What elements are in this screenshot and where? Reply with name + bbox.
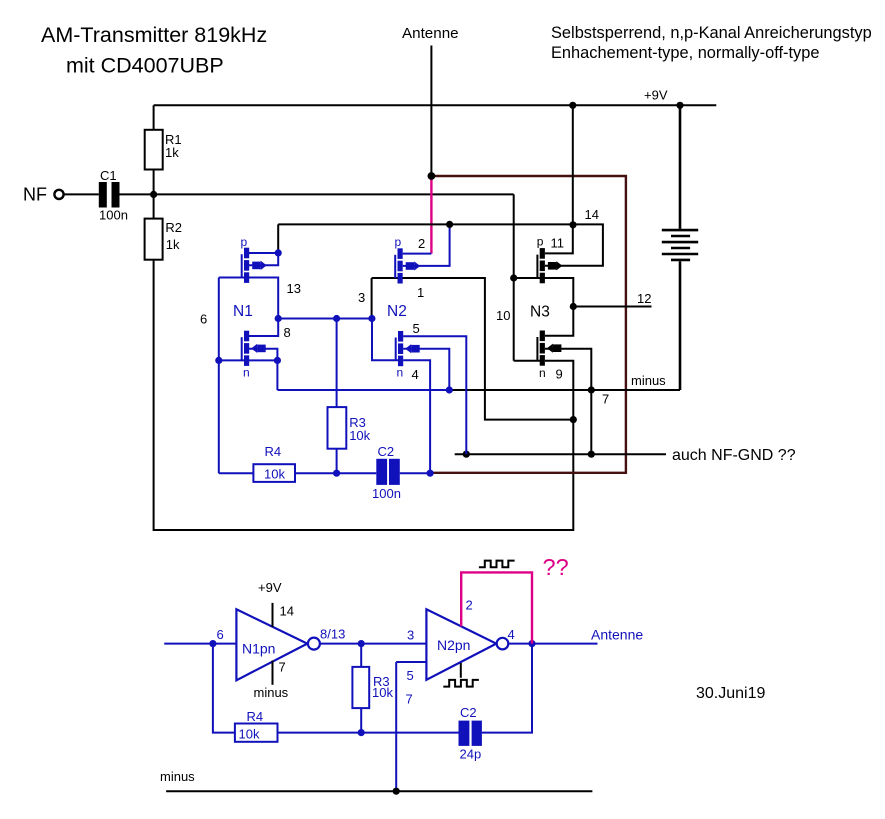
svg-text:8: 8 — [284, 325, 291, 340]
svg-text:N1pn: N1pn — [242, 641, 275, 657]
transistor N1 p-channel — [242, 248, 267, 283]
svg-text:n: n — [539, 366, 546, 380]
wire R4 to C2 lower — [278, 732, 459, 734]
svg-text:n: n — [243, 366, 250, 380]
node 14 junction — [569, 221, 576, 228]
svg-text:13: 13 — [287, 281, 301, 296]
svg-text:+9V: +9V — [258, 580, 282, 595]
node junction — [308, 638, 320, 650]
wire pin14 loop to N3 bulk — [545, 224, 603, 265]
wire N3 bulk to minus and NF-GND — [545, 349, 591, 454]
wire ground return U: R2 bottom to pin 9 — [154, 260, 574, 530]
svg-text:14: 14 — [280, 604, 294, 619]
svg-text:1k: 1k — [166, 237, 180, 252]
svg-text:8/13: 8/13 — [320, 627, 345, 642]
svg-text:minus: minus — [160, 769, 195, 784]
node antenna/maroon/magenta junction — [428, 172, 436, 180]
node C2 / maroon junction — [427, 470, 434, 477]
component body — [472, 721, 482, 746]
wire pin13/pin2 top rail — [278, 224, 573, 253]
svg-text:24p: 24p — [460, 747, 482, 762]
node 3 junction — [368, 315, 375, 322]
wire — [443, 680, 479, 687]
node 6 rail / n gate junction — [215, 357, 222, 364]
capacitor C2 lower — [459, 721, 470, 746]
node junction — [497, 638, 509, 650]
node R3 top junction — [333, 315, 340, 322]
wire N1 n gate feed — [219, 359, 245, 361]
node bulk/minus junction — [588, 386, 595, 393]
wire N1 n bulk arm — [249, 349, 278, 361]
resistor R1 — [145, 130, 163, 170]
wire minus line — [449, 389, 680, 391]
wire N2 n bulk down to minus — [403, 349, 449, 390]
svg-text:minus: minus — [631, 373, 666, 388]
terminal NF input — [54, 190, 63, 199]
wire +9V to node14 to pin11 arm — [545, 105, 573, 253]
wire N1 p bulk arm — [249, 253, 279, 265]
inverter N1pn — [236, 609, 307, 680]
wire lower R3 top stem — [360, 644, 362, 667]
wire pin5 stub lower — [396, 661, 426, 663]
node lower input junction — [209, 640, 216, 647]
transistor N3 n-channel — [537, 331, 561, 366]
wire N1 p source down to node 8/13 — [249, 278, 279, 319]
wire lower R4 branch — [213, 644, 235, 733]
node NF/R1/R2 junction — [150, 191, 157, 198]
node 10 gate junction — [510, 274, 517, 281]
wire node6 to R4 — [219, 472, 254, 474]
wire lower output line — [508, 643, 597, 645]
wire R1 top stem — [153, 105, 155, 130]
resistor R2 — [145, 219, 163, 260]
wire N2 p bulk arm up — [403, 224, 450, 266]
transistor N3 p-channel — [537, 248, 562, 283]
wire R2 top stem — [153, 194, 155, 218]
wire N1 p gate feed — [219, 277, 245, 279]
node R3 bottom junction — [333, 470, 340, 477]
wire N1 p drain arm (13) — [249, 252, 279, 254]
wire node 3 to N2 n gate — [372, 319, 399, 361]
resistor R3 upper — [328, 407, 347, 449]
svg-text:NF: NF — [23, 185, 47, 205]
wire lower R3 bottom stem — [360, 708, 362, 733]
svg-text:2: 2 — [466, 598, 473, 613]
svg-text:p: p — [395, 235, 402, 249]
svg-text:10k: 10k — [372, 685, 393, 700]
svg-text:C2: C2 — [460, 705, 477, 720]
wire N3 n gate feed — [514, 360, 541, 362]
wire maroon antenna-to-C2 loop — [431, 176, 626, 473]
svg-text:n: n — [397, 366, 404, 380]
svg-text:Antenne: Antenne — [402, 25, 459, 42]
svg-text:??: ?? — [543, 554, 569, 580]
capacitor C1 — [99, 182, 107, 208]
svg-text:6: 6 — [200, 312, 207, 327]
wire C2 up to output — [482, 644, 532, 733]
wire N3 p-source to node 12 to n-drain — [514, 278, 574, 336]
svg-text:10k: 10k — [264, 467, 285, 482]
node lower R3 bottom junction — [358, 729, 365, 736]
svg-text:100n: 100n — [99, 208, 128, 223]
wire N2 n drain (5) down to NF-GND — [403, 336, 466, 454]
node pin5/minus junction — [393, 788, 400, 795]
svg-text:R4: R4 — [265, 444, 282, 459]
transistor N1 n-channel — [242, 331, 266, 366]
wire pin5 to minus vertical — [395, 662, 397, 791]
wire node 4 line — [277, 389, 449, 391]
wire NF to C1 — [64, 193, 99, 195]
battery B1 — [662, 105, 698, 390]
svg-text:p: p — [537, 235, 544, 249]
wire lower main line mid — [320, 643, 427, 645]
svg-text:Selbstsperrend, n,p-Kanal Anre: Selbstsperrend, n,p-Kanal Anreicherungst… — [551, 24, 872, 42]
svg-text:100n: 100n — [372, 486, 401, 501]
svg-text:4: 4 — [412, 367, 419, 382]
svg-text:1k: 1k — [165, 145, 179, 160]
wire pin14 stub lower — [272, 603, 274, 627]
capacitor C2 upper — [376, 459, 387, 485]
svg-text:Antenne: Antenne — [591, 627, 643, 643]
wire magenta pin2 loop lower — [461, 572, 532, 643]
wire N1 n source arm — [249, 359, 278, 361]
svg-text:p: p — [241, 235, 248, 249]
wire N1 n drain arm (8) — [249, 319, 279, 337]
wire R3 bottom stem upper — [336, 449, 338, 474]
wire R1 bottom stem — [153, 170, 155, 195]
svg-text:5: 5 — [407, 668, 414, 683]
wire NF line to node 10 — [120, 193, 514, 195]
node 12 junction — [570, 303, 577, 310]
svg-text:6: 6 — [217, 627, 224, 642]
wire N2 p drain arm (2) — [403, 253, 432, 255]
wire +9V rail — [154, 104, 717, 106]
wire antenna vertical — [430, 46, 432, 177]
svg-text:30.Juni19: 30.Juni19 — [696, 685, 765, 702]
wire node 8/13 to node 3 — [278, 318, 372, 320]
svg-text:7: 7 — [406, 692, 413, 707]
node 8/13 junction — [275, 315, 282, 322]
svg-text:auch NF-GND ??: auch NF-GND ?? — [672, 447, 796, 464]
component body — [389, 459, 400, 485]
svg-text:AM-Transmitter 819kHz: AM-Transmitter 819kHz — [41, 23, 267, 47]
svg-text:12: 12 — [637, 291, 651, 306]
svg-text:R4: R4 — [247, 709, 264, 724]
wire auch NF-GND line — [455, 453, 666, 455]
svg-text:N2: N2 — [387, 303, 407, 320]
svg-text:10: 10 — [496, 308, 510, 323]
svg-text:1: 1 — [417, 285, 424, 300]
resistor R3 lower — [352, 667, 369, 708]
wire pin7 stub lower — [272, 661, 274, 685]
node +9V drop — [569, 102, 576, 109]
svg-text:N1: N1 — [233, 303, 253, 320]
node N1 p drain junction — [275, 249, 282, 256]
svg-text:7: 7 — [602, 392, 609, 407]
node pin5/NF-GND junction — [463, 451, 470, 458]
svg-text:10k: 10k — [239, 727, 260, 742]
wire R3 top stem upper — [336, 319, 338, 408]
node +9V/battery — [676, 102, 683, 109]
wire node 10 gate rail vertical — [513, 194, 515, 360]
svg-text:11: 11 — [551, 236, 565, 251]
svg-text:3: 3 — [407, 628, 414, 643]
svg-text:3: 3 — [358, 290, 365, 305]
transistor N2 n-channel — [396, 331, 420, 366]
svg-text:R2: R2 — [165, 220, 182, 235]
squarewave glyph top — [479, 561, 515, 568]
node bulk/NF-GND junction — [588, 451, 595, 458]
node lower output junction — [528, 640, 535, 647]
svg-text:5: 5 — [413, 321, 420, 336]
wire node 6 rail — [218, 278, 220, 474]
svg-text:C1: C1 — [100, 168, 117, 183]
wire magenta pin2 drop — [430, 176, 432, 254]
svg-text:7: 7 — [279, 660, 286, 675]
node pin1/pin9 junction — [570, 416, 577, 423]
svg-text:C2: C2 — [378, 444, 395, 459]
node N2 bulk / node4 junction — [446, 386, 453, 393]
wire R4 to C2 upper — [295, 472, 376, 474]
transistor N2 p-channel — [395, 248, 420, 283]
wire lower input line — [164, 643, 236, 645]
svg-text:9: 9 — [556, 367, 563, 382]
squarewave glyph bottom + stub — [460, 663, 462, 678]
svg-text:14: 14 — [585, 207, 599, 222]
svg-text:Enhachement-type, normally-off: Enhachement-type, normally-off-type — [551, 44, 819, 62]
wire N2 n source (4) down to C2 line — [403, 360, 430, 473]
wire C2 to pin4 column — [400, 472, 430, 474]
component body — [112, 182, 120, 208]
svg-text:N2pn: N2pn — [437, 637, 470, 653]
node lower R3 top junction — [358, 640, 365, 647]
svg-text:4: 4 — [508, 627, 515, 642]
resistor R4 upper — [253, 464, 295, 482]
svg-text:2: 2 — [418, 236, 425, 251]
svg-text:minus: minus — [254, 685, 289, 700]
svg-text:N3: N3 — [530, 304, 550, 321]
wire pin1 to pin9 link — [372, 278, 574, 420]
inverter N2pn — [426, 609, 496, 680]
node N2 bulk / top rail junction — [446, 221, 453, 228]
wire pin 12 stub — [573, 306, 651, 308]
svg-text:10k: 10k — [349, 428, 370, 443]
wire N1 n source down to node 4 — [276, 360, 278, 390]
wire node 3 gate rail upper — [371, 278, 373, 319]
wire lower minus line — [166, 790, 592, 792]
svg-text:+9V: +9V — [644, 88, 668, 103]
node N1 n source junction — [274, 357, 281, 364]
resistor R4 lower — [235, 724, 278, 742]
svg-text:mit CD4007UBP: mit CD4007UBP — [66, 54, 224, 78]
